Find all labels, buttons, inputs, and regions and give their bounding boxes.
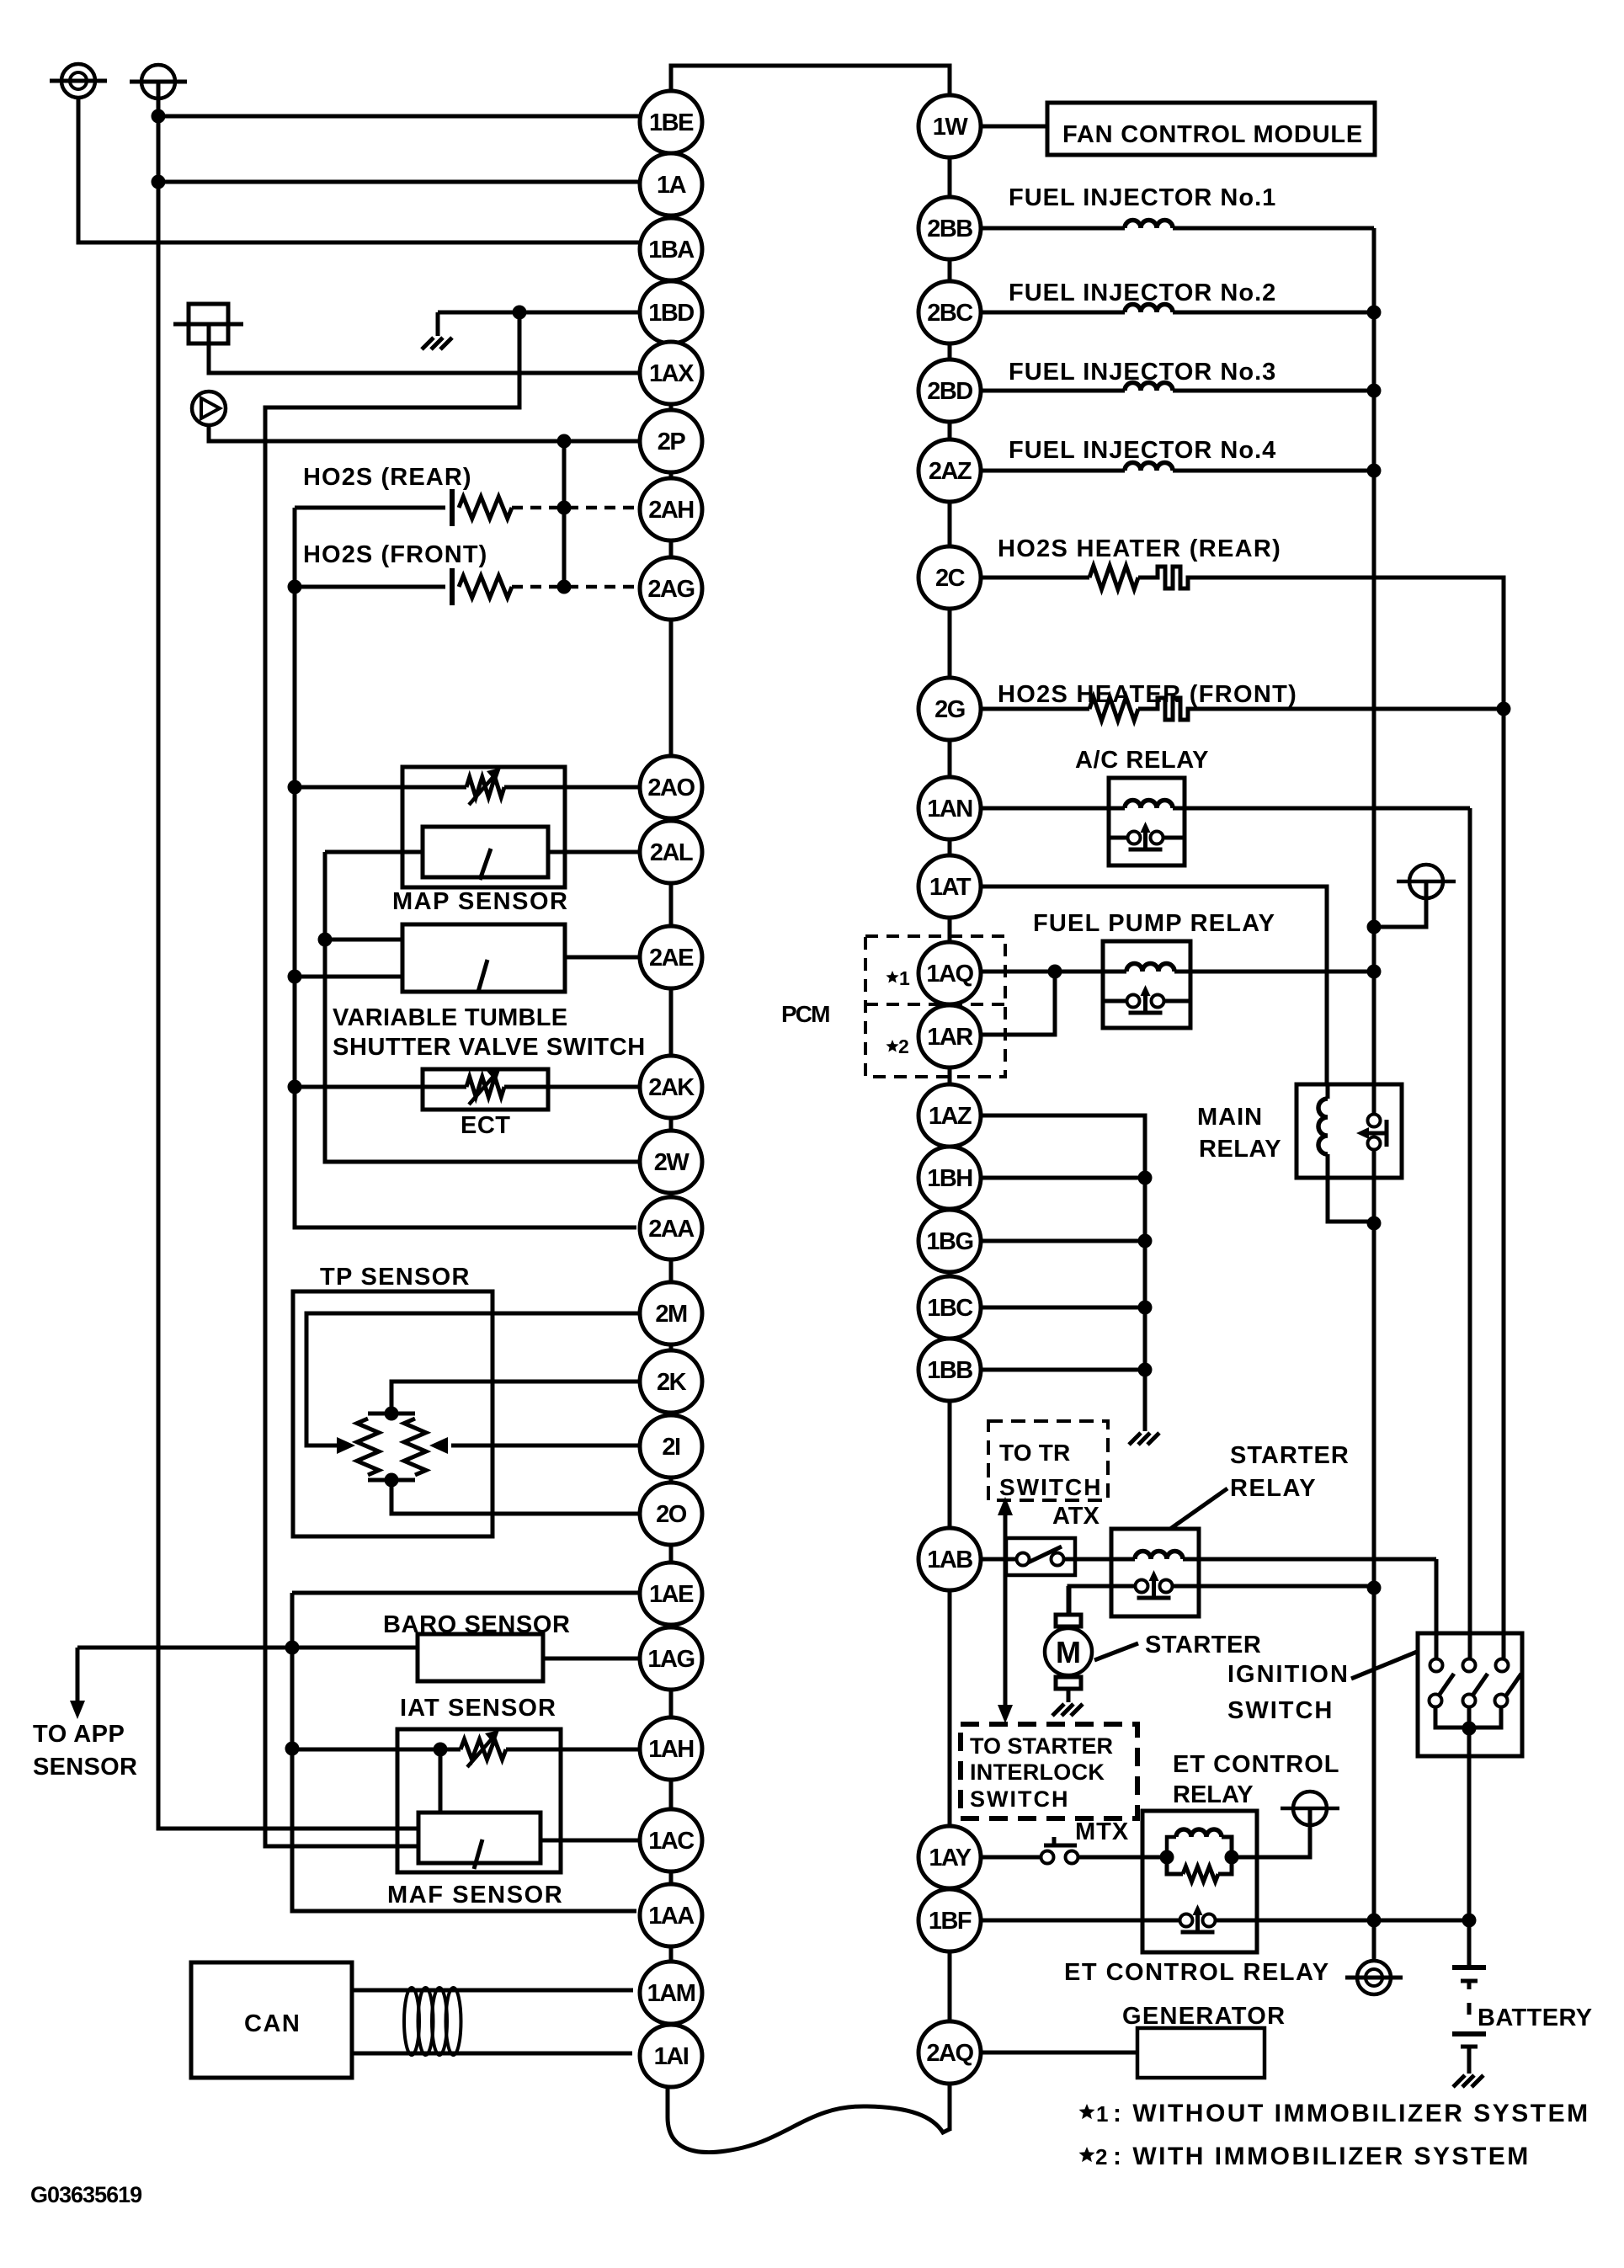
svg-text:2AH: 2AH [648, 497, 694, 524]
svg-text:1AM: 1AM [647, 1980, 695, 2007]
svg-text:1AT: 1AT [929, 874, 972, 901]
svg-text:HO2S (REAR): HO2S (REAR) [303, 464, 472, 491]
svg-text:1AG: 1AG [647, 1646, 694, 1673]
svg-text:ATX: ATX [1052, 1503, 1100, 1530]
svg-text:1BG: 1BG [926, 1228, 972, 1255]
svg-text:1AY: 1AY [929, 1845, 971, 1871]
svg-text:BARO SENSOR: BARO SENSOR [383, 1611, 571, 1638]
svg-text:SHUTTER VALVE SWITCH: SHUTTER VALVE SWITCH [333, 1034, 646, 1061]
svg-text:BATTERY: BATTERY [1478, 2004, 1593, 2031]
svg-text:RELAY: RELAY [1173, 1781, 1254, 1808]
svg-text:SWITCH: SWITCH [999, 1474, 1102, 1500]
svg-text:1AX: 1AX [649, 360, 695, 387]
svg-text:2AQ: 2AQ [926, 2040, 973, 2067]
svg-text:2O: 2O [656, 1501, 687, 1528]
svg-text:1AH: 1AH [648, 1736, 694, 1763]
svg-text:FUEL INJECTOR No.1: FUEL INJECTOR No.1 [1009, 184, 1276, 211]
svg-text:1AE: 1AE [649, 1581, 694, 1608]
svg-text:2G: 2G [934, 696, 965, 723]
svg-text:1BC: 1BC [927, 1295, 973, 1322]
svg-text:TO APP: TO APP [33, 1721, 125, 1748]
svg-text:MAP SENSOR: MAP SENSOR [392, 888, 568, 915]
svg-text:2AO: 2AO [647, 775, 695, 801]
svg-text:1AB: 1AB [927, 1547, 972, 1573]
svg-text:INTERLOCK: INTERLOCK [970, 1760, 1105, 1785]
svg-text:1BH: 1BH [927, 1165, 972, 1192]
svg-text:: WITHOUT IMMOBILIZER SYSTEM: : WITHOUT IMMOBILIZER SYSTEM [1113, 2100, 1590, 2127]
svg-text:2AA: 2AA [648, 1216, 695, 1243]
svg-text:ECT: ECT [461, 1112, 511, 1139]
svg-text:HO2S HEATER (FRONT): HO2S HEATER (FRONT) [998, 681, 1297, 708]
svg-text:2BC: 2BC [927, 300, 973, 327]
svg-text:TO STARTER: TO STARTER [970, 1733, 1113, 1759]
svg-text:CAN: CAN [244, 2010, 301, 2037]
svg-text:HO2S (FRONT): HO2S (FRONT) [303, 541, 487, 568]
svg-text:1BD: 1BD [648, 300, 694, 327]
svg-text:1BA: 1BA [648, 237, 695, 264]
svg-text:M: M [1056, 1635, 1081, 1669]
svg-text:G03635619: G03635619 [30, 2182, 142, 2207]
svg-text:1AQ: 1AQ [926, 961, 973, 988]
svg-text:1A: 1A [657, 172, 687, 199]
svg-text:RELAY: RELAY [1199, 1136, 1281, 1163]
svg-text:STARTER: STARTER [1145, 1632, 1261, 1658]
svg-text:GENERATOR: GENERATOR [1122, 2003, 1286, 2030]
svg-text:2P: 2P [658, 429, 686, 455]
svg-text:ET CONTROL: ET CONTROL [1173, 1751, 1340, 1778]
svg-text:1AC: 1AC [648, 1828, 695, 1855]
svg-text:2K: 2K [657, 1369, 687, 1396]
svg-text:FUEL PUMP RELAY: FUEL PUMP RELAY [1033, 910, 1275, 937]
svg-text:2W: 2W [654, 1149, 690, 1176]
svg-text:IAT SENSOR: IAT SENSOR [400, 1695, 556, 1722]
svg-text:TO TR: TO TR [999, 1440, 1070, 1466]
svg-text:RELAY: RELAY [1230, 1475, 1317, 1502]
svg-text:ET CONTROL RELAY: ET CONTROL RELAY [1064, 1959, 1330, 1986]
svg-text:MAF SENSOR: MAF SENSOR [387, 1882, 563, 1909]
svg-text:1AN: 1AN [927, 796, 972, 823]
svg-text:A/C RELAY: A/C RELAY [1075, 747, 1209, 774]
svg-text:2M: 2M [655, 1301, 687, 1328]
svg-text:1BE: 1BE [649, 109, 694, 136]
svg-text:1AA: 1AA [648, 1903, 695, 1930]
svg-text:SWITCH: SWITCH [970, 1786, 1069, 1812]
svg-text:VARIABLE TUMBLE: VARIABLE TUMBLE [333, 1004, 567, 1031]
svg-text:2C: 2C [935, 565, 966, 592]
svg-text:1: 1 [1096, 2101, 1108, 2127]
svg-text:SENSOR: SENSOR [33, 1754, 137, 1781]
svg-text:2: 2 [1095, 2144, 1107, 2170]
svg-text:1AZ: 1AZ [929, 1103, 972, 1130]
svg-text:2BD: 2BD [927, 378, 972, 405]
svg-text:PCM: PCM [781, 1001, 829, 1027]
svg-text:2BB: 2BB [927, 216, 972, 242]
svg-text:2I: 2I [662, 1434, 680, 1461]
svg-text:HO2S HEATER (REAR): HO2S HEATER (REAR) [998, 535, 1281, 562]
svg-text:IGNITION: IGNITION [1227, 1661, 1350, 1688]
svg-text:TP SENSOR: TP SENSOR [320, 1264, 471, 1291]
svg-text:2AZ: 2AZ [929, 458, 972, 485]
svg-text:FUEL INJECTOR No.4: FUEL INJECTOR No.4 [1009, 437, 1276, 464]
svg-text:1AI: 1AI [654, 2043, 689, 2070]
svg-text:1BB: 1BB [927, 1357, 972, 1384]
svg-text:STARTER: STARTER [1230, 1442, 1350, 1469]
svg-text:1AR: 1AR [927, 1024, 973, 1051]
svg-text:2AL: 2AL [650, 839, 693, 866]
svg-text:2AG: 2AG [647, 576, 694, 603]
svg-text:FUEL INJECTOR No.3: FUEL INJECTOR No.3 [1009, 359, 1276, 386]
svg-text:2AE: 2AE [649, 945, 694, 972]
svg-text:FUEL INJECTOR No.2: FUEL INJECTOR No.2 [1009, 280, 1276, 306]
svg-text:SWITCH: SWITCH [1227, 1697, 1334, 1724]
svg-text:FAN CONTROL MODULE: FAN CONTROL MODULE [1062, 121, 1363, 148]
svg-text:2: 2 [898, 1036, 909, 1057]
svg-text:MAIN: MAIN [1197, 1104, 1263, 1131]
svg-text:2AK: 2AK [648, 1074, 695, 1101]
svg-text:MTX: MTX [1075, 1818, 1129, 1845]
svg-text:1BF: 1BF [929, 1908, 972, 1935]
svg-text:: WITH IMMOBILIZER SYSTEM: : WITH IMMOBILIZER SYSTEM [1113, 2143, 1531, 2170]
svg-text:1W: 1W [933, 114, 969, 141]
svg-text:1: 1 [899, 967, 910, 989]
